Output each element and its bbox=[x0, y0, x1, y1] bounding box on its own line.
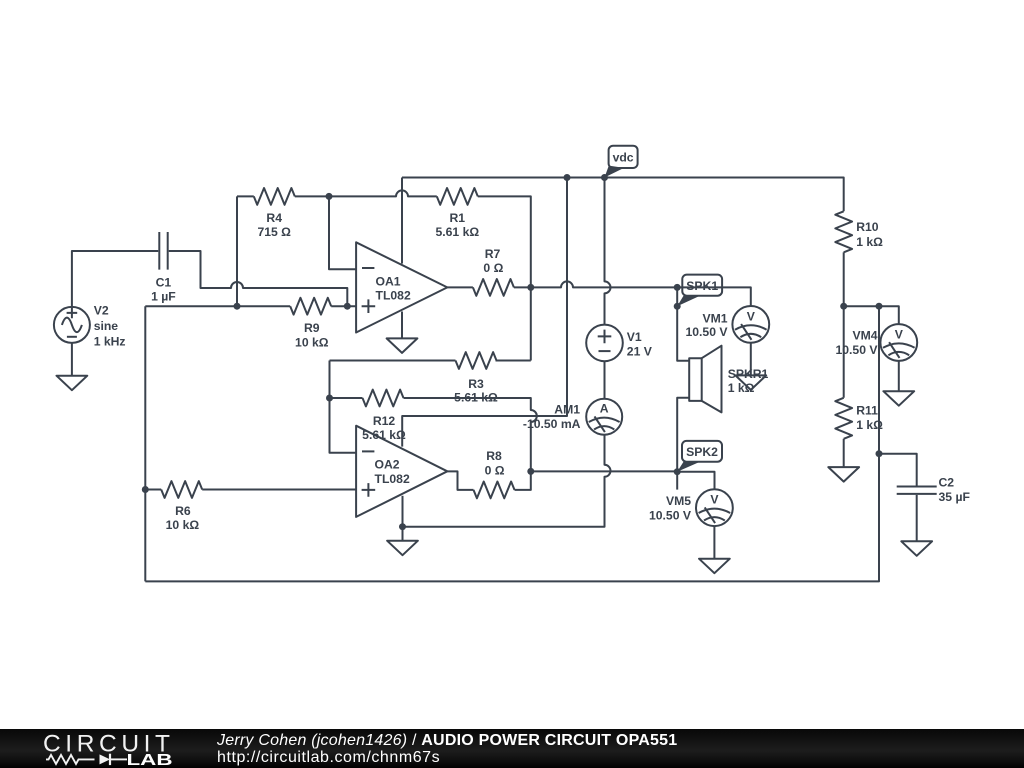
svg-text:AM1: AM1 bbox=[554, 402, 580, 416]
label VM4 value bbox=[835, 329, 878, 358]
junction OA2 ground rail bbox=[399, 523, 406, 530]
label AM1 value bbox=[523, 402, 581, 431]
junction R10-R11 bbox=[840, 303, 847, 310]
junction R4-R1 minus node bbox=[326, 193, 333, 200]
svg-text:5.61 kΩ: 5.61 kΩ bbox=[362, 428, 406, 442]
label R3 value bbox=[454, 377, 498, 405]
svg-text:vdc: vdc bbox=[613, 151, 634, 165]
svg-text:10.50 V: 10.50 V bbox=[649, 509, 692, 523]
svg-text:5.61 kΩ: 5.61 kΩ bbox=[435, 225, 479, 239]
svg-text:1 kΩ: 1 kΩ bbox=[728, 381, 755, 395]
svg-text:LAB: LAB bbox=[127, 752, 173, 768]
svg-text:V2: V2 bbox=[94, 304, 109, 318]
resistor R11 bbox=[835, 398, 852, 439]
wire R12 right + drop (hop at y=416) bbox=[404, 398, 537, 471]
node vdc flag bbox=[605, 146, 638, 178]
label OA2 bbox=[375, 458, 410, 486]
junction C2 branch bbox=[876, 450, 883, 457]
wire node to C2 bbox=[879, 454, 917, 486]
resistor R12 bbox=[363, 390, 404, 407]
ground VM1 bbox=[735, 375, 766, 390]
label R6 value bbox=[166, 504, 200, 532]
junction R7-R1 output node bbox=[527, 284, 534, 291]
resistor R4 bbox=[254, 188, 295, 205]
junction vdc-V1 bbox=[601, 174, 608, 181]
wire input line y=306 left bbox=[145, 305, 290, 307]
CircuitLab logo bbox=[0, 729, 200, 768]
svg-text:5.61 kΩ: 5.61 kΩ bbox=[454, 391, 498, 405]
wire OA1 output to R7 bbox=[447, 286, 473, 288]
wire R4 left riser bbox=[237, 196, 254, 306]
wire AM1 to ground rail (hop at y=471) bbox=[403, 435, 611, 527]
svg-text:OA1: OA1 bbox=[376, 275, 401, 289]
wire speaker top bbox=[677, 287, 689, 360]
label SPKR1 value bbox=[728, 367, 769, 395]
junction R4-R9 bbox=[234, 303, 241, 310]
label R1 value bbox=[435, 211, 479, 239]
wire R6 left lead bbox=[145, 489, 161, 491]
wire VM5 bottom bbox=[713, 526, 715, 559]
svg-text:-10.50 mA: -10.50 mA bbox=[523, 417, 581, 431]
svg-text:R6: R6 bbox=[175, 504, 191, 518]
svg-text:sine: sine bbox=[94, 319, 119, 333]
wire R3 line bbox=[330, 360, 531, 362]
node SPK2 flag bbox=[677, 441, 722, 472]
svg-text:0 Ω: 0 Ω bbox=[485, 463, 505, 477]
wire V2 to C1 bbox=[72, 251, 158, 307]
capacitor C1 bbox=[159, 232, 167, 270]
op-amp OA1 bbox=[356, 242, 447, 338]
label V2 value bbox=[94, 304, 126, 349]
svg-text:R1: R1 bbox=[450, 211, 466, 225]
voltmeter VM5 bbox=[696, 489, 733, 526]
wire R12 left lead bbox=[330, 397, 363, 399]
resistor R6 bbox=[161, 481, 202, 498]
svg-text:SPK1: SPK1 bbox=[686, 279, 718, 293]
wire OA1 minus drop bbox=[329, 196, 356, 269]
svg-text:1 kΩ: 1 kΩ bbox=[856, 235, 883, 249]
svg-text:R11: R11 bbox=[856, 404, 878, 418]
junction SPK2 net bbox=[674, 468, 681, 475]
svg-text:TL082: TL082 bbox=[376, 289, 411, 303]
svg-text:10.50 V: 10.50 V bbox=[835, 343, 878, 357]
ammeter AM1 bbox=[586, 399, 622, 435]
junction R8-R12 output node bbox=[527, 468, 534, 475]
svg-text:R3: R3 bbox=[468, 377, 484, 391]
svg-text:715 Ω: 715 Ω bbox=[257, 225, 291, 239]
svg-text:V: V bbox=[747, 309, 756, 323]
svg-text:R4: R4 bbox=[266, 211, 282, 225]
resistor R9 bbox=[290, 298, 331, 315]
wire V2 bottom bbox=[71, 343, 73, 376]
svg-text:R12: R12 bbox=[373, 414, 396, 428]
wire OA2 ground riser bbox=[402, 496, 404, 541]
junction C1-R9 plus node bbox=[344, 303, 351, 310]
wire R8 right up bbox=[515, 471, 531, 490]
wire R11 top lead bbox=[843, 306, 845, 398]
svg-text:A: A bbox=[600, 402, 609, 416]
svg-text:1 kΩ: 1 kΩ bbox=[856, 418, 883, 432]
wire vdc to OA2 V+ bbox=[402, 178, 567, 447]
wire left vertical x=145 bbox=[144, 306, 146, 581]
svg-text:VM1: VM1 bbox=[702, 311, 727, 325]
junction R6 left bbox=[142, 486, 149, 493]
svg-text:R9: R9 bbox=[304, 321, 320, 335]
label VM5 value bbox=[649, 494, 692, 523]
wire V1 to AM1 bbox=[604, 361, 606, 399]
ground R11 bbox=[828, 467, 859, 482]
svg-text:VM4: VM4 bbox=[852, 329, 877, 343]
label VM1 value bbox=[685, 311, 728, 339]
source V2 bbox=[54, 307, 90, 343]
node SPK1 flag bbox=[677, 275, 722, 307]
label R10 value bbox=[856, 220, 883, 249]
svg-text:OA2: OA2 bbox=[375, 458, 400, 472]
ground VM4 bbox=[883, 391, 914, 406]
wire VM4 bottom bbox=[898, 361, 900, 391]
junction R3-R12 minus node bbox=[326, 395, 333, 402]
wire C1 to OA1 plus (hop at x=237) bbox=[169, 251, 348, 306]
op-amp OA2 bbox=[356, 426, 447, 517]
speaker SPKR1 bbox=[689, 346, 721, 413]
svg-text:R10: R10 bbox=[856, 220, 879, 234]
ground OA2 bbox=[387, 541, 418, 556]
svg-text:C2: C2 bbox=[939, 476, 955, 490]
ground VM5 bbox=[699, 559, 730, 574]
wire R10 R11 node to VM4 bbox=[844, 306, 899, 324]
svg-text:V1: V1 bbox=[627, 330, 642, 344]
wire bottom rail bbox=[145, 306, 879, 581]
wire R6 to OA2 plus bbox=[202, 489, 356, 491]
capacitor C2 bbox=[897, 487, 937, 494]
svg-text:0 Ω: 0 Ω bbox=[483, 261, 503, 275]
wire R4 to R1 (hop at x=402) bbox=[295, 190, 437, 196]
junction vdc-x567 bbox=[564, 174, 571, 181]
svg-text:SPKR1: SPKR1 bbox=[728, 367, 769, 381]
junction SPK1 flag tip bbox=[674, 303, 681, 310]
voltmeter VM4 bbox=[880, 324, 917, 361]
svg-text:1 kHz: 1 kHz bbox=[94, 335, 126, 349]
resistor R8 bbox=[474, 482, 515, 499]
label C2 value bbox=[939, 476, 970, 504]
svg-text:10 kΩ: 10 kΩ bbox=[166, 518, 200, 532]
wire C2 bottom bbox=[916, 495, 918, 541]
wire OA2 output to R8 bbox=[447, 471, 473, 490]
wire speaker bottom bbox=[677, 398, 689, 472]
wire R11 bottom lead bbox=[843, 439, 845, 467]
svg-text:10 kΩ: 10 kΩ bbox=[295, 335, 329, 349]
label R11 value bbox=[856, 404, 883, 433]
svg-text:VM5: VM5 bbox=[666, 494, 691, 508]
svg-text:1 µF: 1 µF bbox=[151, 290, 176, 304]
label R7 value bbox=[483, 247, 503, 275]
label C1 value bbox=[151, 276, 176, 304]
svg-text:SPK2: SPK2 bbox=[686, 445, 718, 459]
svg-text:R8: R8 bbox=[486, 449, 502, 463]
junction VM4 branch bbox=[876, 303, 883, 310]
wire SPK2 stub bbox=[676, 472, 678, 490]
svg-text:V: V bbox=[895, 328, 904, 342]
label R4 value bbox=[257, 211, 291, 239]
resistor R3 bbox=[456, 352, 497, 369]
label V1 value bbox=[627, 330, 653, 358]
wire output line y=287 (hop at x=567) bbox=[531, 281, 751, 306]
svg-text:21 V: 21 V bbox=[627, 344, 653, 358]
label R9 value bbox=[295, 321, 329, 349]
source V1 bbox=[586, 325, 623, 362]
voltmeter VM1 bbox=[732, 306, 769, 343]
resistor R1 bbox=[437, 188, 478, 205]
wire output2 line y=471 bbox=[531, 470, 677, 472]
svg-text:R7: R7 bbox=[485, 247, 501, 261]
wire R7 right bbox=[514, 286, 531, 288]
wire R3 drop to OA2 minus bbox=[330, 361, 357, 453]
svg-text:V: V bbox=[710, 493, 719, 507]
ground C2 bbox=[901, 541, 932, 556]
resistor R7 bbox=[473, 279, 514, 296]
label OA1 bbox=[376, 275, 411, 303]
svg-text:C1: C1 bbox=[156, 276, 172, 290]
wire R1 right + x=530 vertical bbox=[478, 196, 531, 360]
wire SPK2 to VM5 bbox=[677, 472, 714, 490]
wire VM1 bottom bbox=[750, 343, 752, 376]
svg-text:TL082: TL082 bbox=[375, 472, 410, 486]
svg-text:35 µF: 35 µF bbox=[939, 490, 970, 504]
wire OA1 V+ riser bbox=[401, 178, 403, 264]
ground V2 bbox=[57, 376, 88, 391]
wire R10 bottom lead bbox=[843, 252, 845, 306]
wire R9 to plus input bbox=[331, 305, 356, 307]
wire V1 riser (hop at y=287) bbox=[605, 178, 611, 325]
wire vdc top rail bbox=[402, 178, 844, 212]
ground OA1 bbox=[387, 338, 418, 353]
label R12 value bbox=[362, 414, 406, 442]
junction SPK1 net bbox=[674, 284, 681, 291]
label R8 value bbox=[485, 449, 505, 477]
resistor R10 bbox=[835, 211, 852, 252]
svg-text:10.50 V: 10.50 V bbox=[685, 325, 728, 339]
